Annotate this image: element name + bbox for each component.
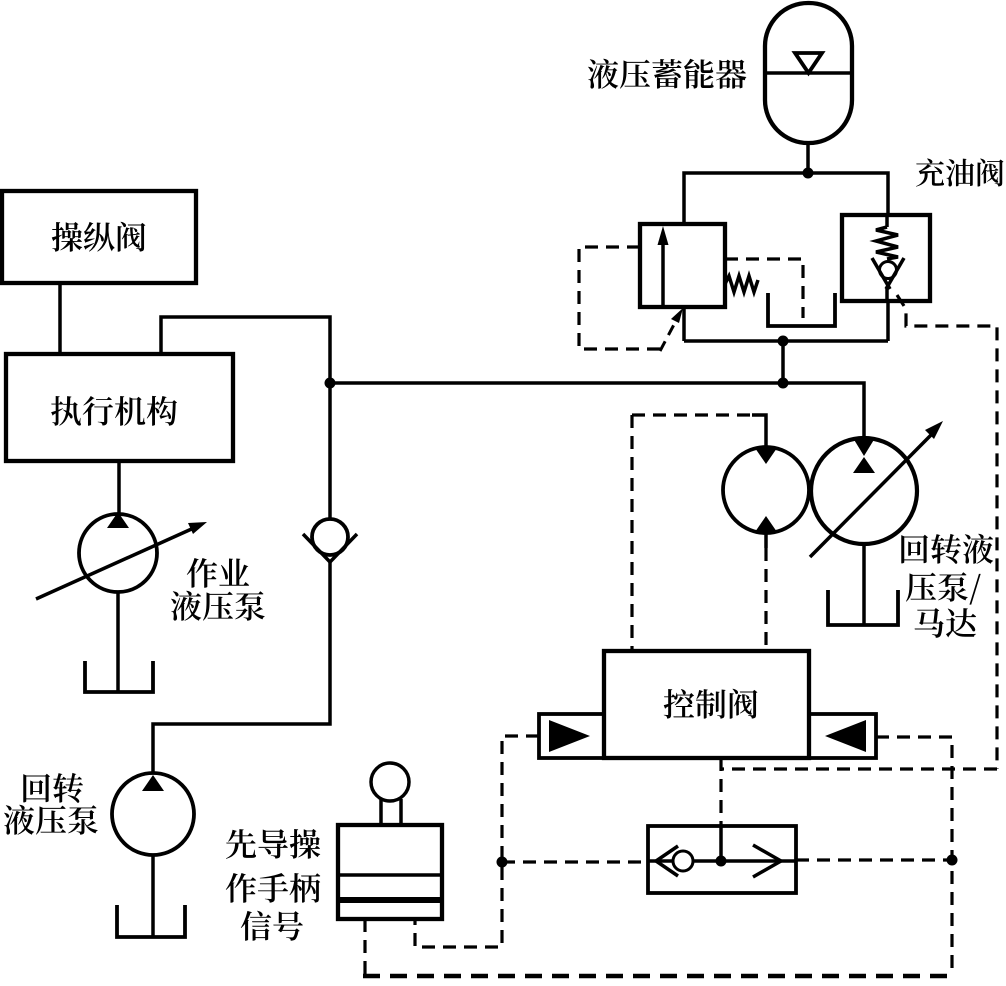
label pilot handle 作手柄 xyxy=(226,873,320,903)
node J4 xyxy=(325,378,336,389)
pilot line dashed loop left xyxy=(579,247,660,349)
work pump P1 variable xyxy=(79,512,157,592)
swing pump P3 xyxy=(112,773,194,855)
tank T2 xyxy=(828,590,898,625)
wire unloading valve outlet xyxy=(682,307,686,341)
label work pump 作业 xyxy=(187,558,249,588)
shuttle valve body xyxy=(648,826,796,893)
wire P3 to tank xyxy=(151,855,155,936)
node J6 xyxy=(947,855,958,866)
tank T3 xyxy=(85,661,153,692)
drain pilot dashed xyxy=(725,259,803,318)
label swing pump 回转 xyxy=(23,773,83,803)
wire P2 to tank xyxy=(862,544,866,624)
label work pump 液压泵 xyxy=(171,591,265,621)
wire accumulator stem xyxy=(806,143,810,173)
label accumulator 液压蓄能器 xyxy=(588,59,746,89)
shuttle valve internals xyxy=(648,826,796,877)
check valve CV2 xyxy=(303,519,357,562)
node J7 shuttle center xyxy=(716,856,727,867)
node J1 xyxy=(803,168,814,179)
variable displacement arrow P2 xyxy=(810,421,943,557)
wire motor top entry xyxy=(752,415,766,447)
pilot line right actuator column xyxy=(876,737,952,976)
label pilot handle 先导操 xyxy=(226,829,320,859)
pilot handle stem xyxy=(381,799,401,825)
control valve body xyxy=(604,651,809,758)
pilot dashed to motor top xyxy=(632,413,752,416)
wire P1 to tank xyxy=(116,592,120,691)
label swing pump/motor 马达 xyxy=(915,608,977,638)
unloading valve flow arrow xyxy=(658,226,669,306)
tank T4 xyxy=(117,905,185,937)
label swing pump/motor 压泵/ xyxy=(906,572,981,604)
variable displacement arrow P1 xyxy=(36,522,207,599)
label swing pump/motor 回转液 xyxy=(901,534,993,564)
wire check valve outlet xyxy=(886,301,890,341)
pilot line shuttle left branch xyxy=(502,860,648,863)
pilot line right lower loop xyxy=(721,767,997,770)
charge check valve body xyxy=(842,215,930,301)
tank T1 drain xyxy=(768,293,835,326)
node J5 xyxy=(497,857,508,868)
wire J2 drop xyxy=(781,341,785,383)
label control valve 控制阀 xyxy=(664,689,758,719)
pilot arrow diagonal xyxy=(660,308,683,351)
wire main pressure bus xyxy=(330,383,864,438)
wire actuator to bus xyxy=(161,317,330,519)
label charge valve 充油阀 xyxy=(916,158,1004,186)
operating valve 操纵阀 box xyxy=(2,191,196,283)
motor M1 fixed displacement xyxy=(723,447,809,533)
unloading valve body xyxy=(640,224,725,307)
spring unloading valve xyxy=(725,276,758,292)
pilot handle knob xyxy=(371,763,409,801)
wire charge bus xyxy=(684,339,888,343)
wire top rail xyxy=(684,173,888,224)
pilot line control valve drain riser xyxy=(719,758,722,826)
pilot line check valve to right column xyxy=(897,295,997,769)
pilot actuator right xyxy=(809,714,876,758)
pilot dashed left column to control valve xyxy=(630,415,633,651)
pilot actuator left xyxy=(539,714,604,758)
label 执行机构 xyxy=(51,396,177,426)
pump P2 variable swing pump/motor xyxy=(811,438,917,544)
pilot line handle left port xyxy=(363,919,366,976)
wire actuator to work pump xyxy=(117,461,121,514)
node J2 xyxy=(778,336,789,347)
wire operating valve to actuator xyxy=(58,283,62,354)
label swing pump 液压泵 xyxy=(4,805,98,835)
charge check valve internals xyxy=(872,215,904,301)
pilot handle body xyxy=(338,825,442,919)
pilot dashed motor bottom to control valve xyxy=(764,533,768,548)
wire CV2 to swing pump xyxy=(153,560,330,773)
pilot line bottom bus xyxy=(363,974,952,979)
pilot line left actuator column xyxy=(415,736,539,947)
label pilot handle 信号 xyxy=(241,911,303,941)
label 操纵阀 xyxy=(52,222,146,252)
actuator 执行机构 box xyxy=(6,354,233,461)
node J3 xyxy=(778,378,789,389)
accumulator xyxy=(765,3,852,143)
pilot line shuttle right branch xyxy=(796,858,952,861)
